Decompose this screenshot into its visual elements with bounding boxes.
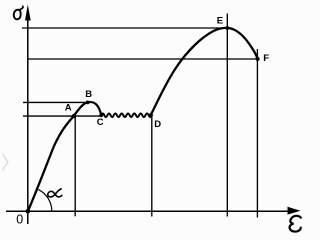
point D <box>149 113 153 117</box>
epsilon axis label <box>290 216 301 232</box>
vertical reference line through F <box>256 49 258 218</box>
point E <box>225 26 229 30</box>
point B <box>86 101 90 105</box>
x-axis (epsilon axis) <box>6 210 289 212</box>
point F <box>256 57 260 61</box>
svg-text:B: B <box>85 89 92 100</box>
x-axis arrowhead <box>288 207 301 215</box>
point C <box>99 113 103 117</box>
necking curve E to F <box>227 28 257 59</box>
svg-text:C: C <box>97 117 104 128</box>
hardening curve D to E <box>151 28 228 115</box>
yield plateau wavy line C to D <box>101 113 152 117</box>
svg-text:D: D <box>154 119 161 130</box>
horizontal reference line at E level <box>22 27 227 29</box>
svg-text:F: F <box>263 53 269 64</box>
horizontal reference line at B level <box>23 101 88 103</box>
curve drop B to C <box>88 102 102 115</box>
stress-strain curve: elastic rise O to B <box>28 102 88 211</box>
point A <box>72 114 76 118</box>
vertical reference line from A <box>74 116 76 216</box>
horizontal reference line at F level <box>28 58 258 60</box>
vertical reference line from D <box>151 115 153 217</box>
sigma axis label <box>14 6 23 19</box>
y-axis arrowhead <box>25 5 31 21</box>
origin point <box>26 209 31 214</box>
svg-text:E: E <box>217 16 223 27</box>
svg-text:A: A <box>65 102 72 113</box>
angle arc alpha <box>38 190 51 212</box>
horizontal reference line at C level <box>23 115 100 117</box>
svg-text:0: 0 <box>16 213 23 227</box>
vertical reference line through E <box>226 14 228 217</box>
y-axis (sigma axis) <box>27 13 29 224</box>
scan artifact chevron left edge <box>3 154 9 170</box>
alpha label <box>48 189 62 197</box>
